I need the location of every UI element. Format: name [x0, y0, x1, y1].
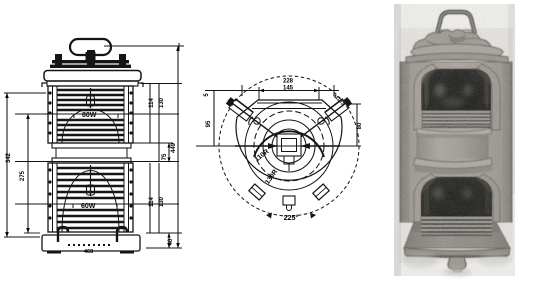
svg-text:449: 449: [171, 142, 177, 153]
svg-text:275: 275: [20, 170, 26, 181]
feet: [47, 251, 61, 254]
clamp bolt right: [325, 96, 353, 121]
handle lugs: [440, 30, 450, 37]
base rim: [404, 248, 510, 258]
svg-text:95: 95: [206, 120, 212, 127]
dim 342: [6, 93, 8, 237]
left dim 95 and 5: [213, 91, 215, 147]
bright ring under upper glass: [417, 129, 491, 137]
lantern wings body: [400, 62, 512, 222]
svg-text:80: 80: [357, 122, 363, 129]
sector line left: [228, 100, 282, 141]
foot: [448, 257, 466, 270]
label 80W: [74, 114, 118, 118]
base stud row: [68, 244, 110, 246]
lower glass: [421, 177, 492, 236]
dashed 225 deg circle: [219, 76, 359, 216]
lower mullions: [414, 174, 436, 222]
upper mullions: [414, 64, 437, 130]
svg-text:228: 228: [283, 79, 294, 85]
lower bright ring: [414, 158, 492, 169]
right dim 80: [356, 104, 358, 146]
circle r26: [263, 120, 315, 172]
mid band: [52, 143, 131, 148]
feet tabs: [249, 184, 265, 200]
lamp centerline upper: [90, 88, 92, 108]
bolt center: [87, 50, 95, 68]
right dim lines: [149, 84, 151, 143]
fresnel upper: [422, 112, 490, 126]
wire top reference line: [104, 45, 184, 47]
J-bolt right: [117, 227, 127, 242]
clamp bolt left: [225, 96, 253, 121]
mid cylinder: [417, 134, 488, 159]
svg-text:114: 114: [149, 98, 155, 108]
svg-text:M16: M16: [332, 94, 343, 105]
top cap: [44, 71, 141, 82]
svg-text:130: 130: [159, 97, 165, 108]
bolt right: [119, 54, 126, 68]
lower louvers: [57, 168, 124, 228]
centerline horizontal: [196, 145, 345, 147]
svg-text:130: 130: [159, 196, 165, 207]
flat back polygon: [237, 100, 341, 117]
arc arrows: [266, 213, 272, 219]
svg-text:130R: 130R: [264, 168, 279, 185]
dim ticks right: [141, 83, 182, 85]
bolt left: [55, 54, 62, 68]
upper louvers: [57, 90, 124, 140]
base cone: [404, 222, 510, 248]
outer housing circle: [236, 117, 342, 180]
side bolts lower: [48, 168, 132, 219]
bottom fitting: [283, 196, 295, 205]
mid dimension line: [15, 161, 179, 163]
circle r44: [245, 102, 333, 190]
back plate line: [257, 102, 322, 104]
cap flange: [47, 81, 138, 86]
svg-text:225°: 225°: [284, 213, 299, 222]
sector line right: [296, 100, 350, 141]
upper glass: [421, 69, 491, 127]
cap flange: [411, 44, 503, 60]
focal line upper: [15, 113, 179, 115]
base: [42, 235, 140, 251]
svg-text:5: 5: [204, 93, 210, 97]
dim 275: [27, 114, 29, 233]
label 60W: [73, 204, 117, 208]
top dim lines 228/145: [238, 90, 339, 92]
circle r35: [254, 111, 324, 181]
lower dome glass: [62, 171, 119, 233]
focal line lower: [15, 203, 179, 205]
svg-text:80W: 80W: [82, 112, 97, 119]
center lamp block: [277, 134, 301, 156]
circle r17: [272, 129, 306, 163]
upper dome glass: [62, 109, 119, 143]
svg-text:145: 145: [283, 86, 294, 92]
svg-text:342: 342: [6, 152, 12, 163]
svg-text:468: 468: [84, 249, 93, 255]
grain overlay: [394, 4, 515, 276]
bracket bar: [52, 60, 129, 63]
dome arc bold: [254, 131, 324, 157]
photo background: [394, 4, 515, 276]
upper lamp body: [48, 86, 133, 143]
glass reflections upper: [421, 68, 438, 86]
svg-text:40: 40: [168, 238, 174, 245]
cap scallop: [413, 30, 492, 50]
svg-text:114: 114: [149, 197, 155, 207]
handle: [70, 39, 111, 55]
lower lamp body: [48, 163, 133, 232]
side bolts upper: [48, 91, 132, 134]
handle mount: [86, 52, 96, 61]
handle: [437, 12, 475, 34]
J-bolt left: [58, 227, 68, 242]
fresnel lower: [421, 218, 492, 234]
hinge ear left: [254, 118, 260, 124]
lamp centerline lower: [90, 165, 92, 196]
hinge ear right: [318, 118, 324, 124]
svg-text:75: 75: [162, 153, 168, 160]
